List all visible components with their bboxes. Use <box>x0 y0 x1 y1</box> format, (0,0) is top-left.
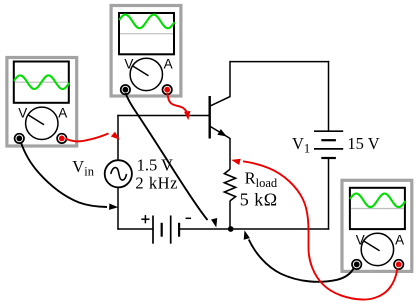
meter A (input) screen centerline <box>15 81 68 83</box>
svg-text:1.5 V: 1.5 V <box>137 156 173 175</box>
battery V1 plates <box>314 131 343 158</box>
wire: meter A black probe lead <box>21 142 107 207</box>
svg-text:15 V: 15 V <box>347 134 379 153</box>
wire: bottom rail right segment <box>179 228 329 230</box>
label - polarity <box>186 217 192 219</box>
meter C (output) black terminal <box>352 260 361 269</box>
wire: collector to top rail <box>230 61 329 63</box>
meter A (input) black terminal <box>15 134 24 143</box>
meter B (base) body <box>111 6 181 97</box>
label + polarity <box>141 215 149 223</box>
meter C red probe arrow at emitter/load node <box>231 159 241 165</box>
meter C (output) body <box>342 180 412 271</box>
meter A (input) body <box>7 58 77 147</box>
svg-text:5 kΩ: 5 kΩ <box>240 189 278 209</box>
wire: right vertical upper (top rail to V1) <box>328 61 330 131</box>
meter A (input) waveform trace <box>14 75 69 89</box>
wire: meter C black probe lead <box>249 240 354 282</box>
meter B (base) waveform trace <box>119 15 174 29</box>
wire: meter B red probe lead <box>167 93 188 115</box>
svg-text:A: A <box>395 233 404 248</box>
meter C (output) waveform trace <box>350 194 405 208</box>
wire: base wire horizontal <box>117 115 209 117</box>
wire: meter C red probe lead <box>243 161 397 299</box>
meter B (base) black terminal <box>121 85 130 94</box>
transistor Q1 collector lead <box>211 61 231 106</box>
meter C (output) red terminal <box>394 260 403 269</box>
meter C (output) dial <box>361 233 393 265</box>
meter C black probe arrow at load bottom node <box>244 230 250 240</box>
meter A (input) dial <box>26 107 58 139</box>
transistor Q1 emitter lead <box>211 127 231 139</box>
wire: left vertical upper (Vin top to source) <box>117 115 119 161</box>
transistor Q1 emitter arrow <box>217 129 226 137</box>
wire: right vertical lower (V1 to bottom rail) <box>328 158 330 230</box>
wire: meter A red probe lead <box>66 133 109 141</box>
resistor Rload zigzag <box>224 169 235 201</box>
svg-text:A: A <box>164 57 173 72</box>
meter B (base) dial <box>130 58 162 90</box>
meter A black probe arrow at Vin bottom node <box>109 204 118 210</box>
meter A red probe arrow at Vin top node <box>111 132 120 140</box>
meter C (output) screen centerline <box>351 208 404 210</box>
meter A (input) screen <box>14 62 69 103</box>
transistor Q1 base bar <box>208 96 210 139</box>
meter A (input) red terminal <box>57 134 66 143</box>
meter B (base) red terminal <box>163 85 172 94</box>
battery (bottom source) plates <box>153 216 179 244</box>
svg-text:2 kHz: 2 kHz <box>135 173 178 192</box>
node: emitter/load junction dot <box>228 226 234 232</box>
meter C (output) screen <box>350 188 405 229</box>
wire: emitter down to resistor <box>229 138 231 169</box>
wire: bottom rail left segment <box>117 228 153 230</box>
AC source sine symbol <box>111 168 127 181</box>
meter B red probe arrow at base node <box>184 111 190 120</box>
meter B black probe arrow at emitter bottom node <box>211 218 217 228</box>
wire: resistor to bottom rail <box>229 201 231 229</box>
wire: meter B black probe lead <box>126 93 208 220</box>
meter B (base) screen centerline <box>120 33 173 35</box>
wire: left vertical lower (source to bottom rail) <box>117 187 119 230</box>
svg-text:A: A <box>58 106 67 121</box>
meter B (base) screen <box>119 13 174 54</box>
AC source Vin circle <box>105 160 132 187</box>
